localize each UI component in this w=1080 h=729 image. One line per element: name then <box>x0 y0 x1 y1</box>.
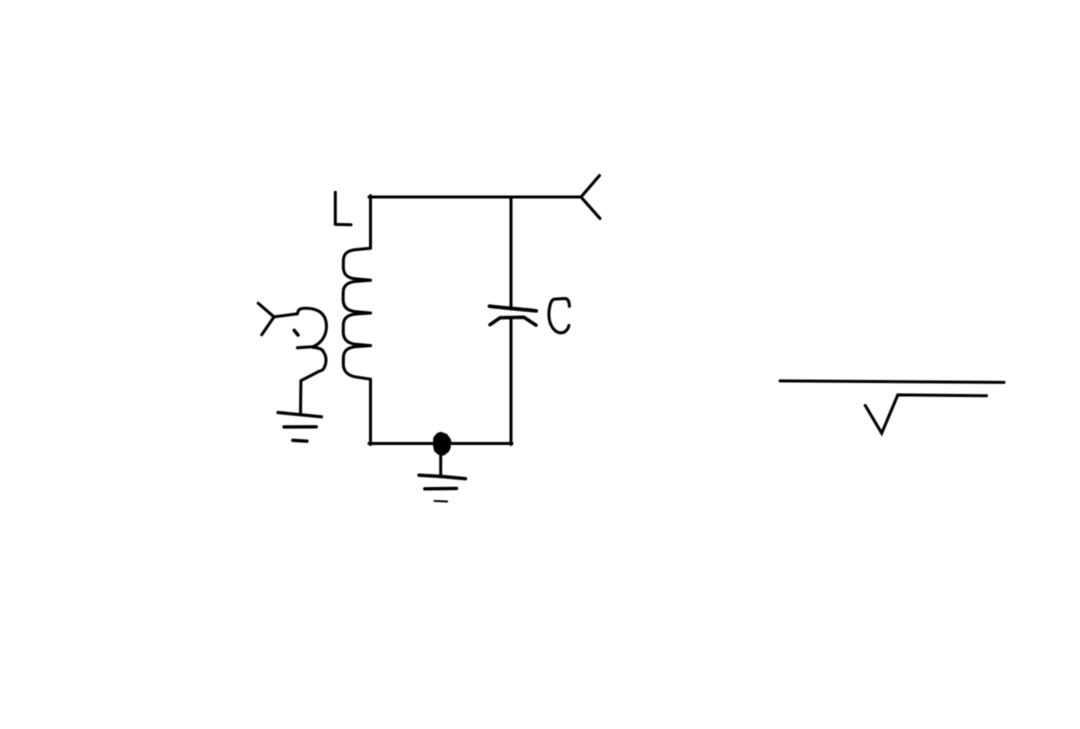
label L <box>335 192 351 225</box>
ground bar 3 (main) <box>434 500 447 503</box>
wire right vertical lower <box>510 318 513 445</box>
fraction bar <box>780 381 1004 383</box>
capacitor C bottom plate <box>490 317 536 325</box>
wire bottom horizontal <box>369 442 512 445</box>
input terminal (open Y, secondary) <box>258 303 274 335</box>
coupling coil turn 2 <box>301 347 326 414</box>
square root radical <box>865 395 986 433</box>
ground stem (main) <box>439 443 442 475</box>
pen tick mark <box>294 330 298 335</box>
wire left vertical lower <box>369 379 372 444</box>
wire right vertical upper (capacitor branch) <box>510 197 513 309</box>
wire top horizontal <box>369 196 581 199</box>
wire secondary lead <box>274 314 297 317</box>
junction node dot <box>434 433 451 455</box>
capacitor C top plate <box>490 306 537 311</box>
label C <box>549 299 569 333</box>
wire left vertical upper <box>369 196 372 248</box>
ground bar 1 (main) <box>419 475 466 479</box>
coupling coil turn 1 <box>297 308 326 348</box>
ground bar 2 (secondary) <box>284 425 316 429</box>
ground bar 3 (secondary) <box>293 439 307 443</box>
ground bar 1 (secondary) <box>278 413 322 417</box>
antenna terminal (open Y) <box>581 176 600 219</box>
inductor L winding <box>343 248 370 379</box>
ground bar 2 (main) <box>425 487 457 491</box>
